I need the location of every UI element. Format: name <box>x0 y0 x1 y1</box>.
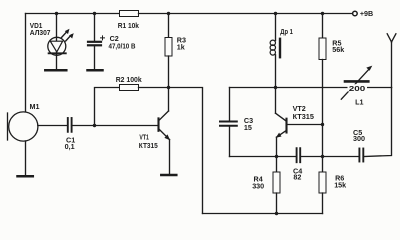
wire C4 to C5 <box>300 156 359 158</box>
wire C1 to VT1 base <box>72 125 158 127</box>
node junction dot choke bottom / VT2 collector <box>274 86 277 89</box>
node junction dot VT1 collector <box>167 86 170 89</box>
ground bar under LED <box>45 69 66 72</box>
svg-text:+9В: +9В <box>360 9 373 18</box>
antenna <box>387 34 396 88</box>
svg-text:1k: 1k <box>177 42 185 51</box>
wire R2 left drop <box>95 88 120 126</box>
capacitor C2 electrolytic <box>88 14 136 71</box>
ground bar under C2 <box>88 69 103 72</box>
LED VD1 <box>30 14 66 71</box>
wire top rail right segment <box>139 13 353 15</box>
capacitor C1 <box>65 118 76 151</box>
svg-text:15k: 15k <box>334 181 346 190</box>
node junction dot R2 to base wire <box>93 124 96 127</box>
node junction dot R4 bottom <box>275 212 278 215</box>
LED arrow 1 <box>62 29 70 38</box>
svg-text:47,0/10 В: 47,0/10 В <box>109 42 136 51</box>
node junction dot R3 top <box>167 12 170 15</box>
resistor R5 <box>319 14 344 173</box>
node junction dot C2 top <box>93 12 96 15</box>
svg-text:200: 200 <box>349 84 366 93</box>
node junction dot C4/C5/R6 <box>321 155 324 158</box>
wire microphone bottom to ground <box>25 141 27 176</box>
svg-text:300: 300 <box>353 134 365 143</box>
svg-text:56k: 56k <box>332 45 344 54</box>
svg-text:0,1: 0,1 <box>65 142 75 151</box>
svg-text:M1: M1 <box>30 102 40 111</box>
transistor VT2 KT315 <box>276 88 323 157</box>
svg-text:АЛ307: АЛ307 <box>30 28 51 37</box>
resistor R2 <box>116 75 142 91</box>
capacitor C3 <box>220 88 253 157</box>
svg-text:L1: L1 <box>355 98 363 107</box>
wire bottom rail <box>203 213 323 215</box>
wire C5 to antenna column <box>363 88 391 157</box>
capacitor variable 200 trimmer <box>341 66 372 107</box>
capacitor C4 <box>293 148 302 182</box>
svg-text:R1 10k: R1 10k <box>118 21 139 30</box>
inductor Dr1 choke <box>270 14 293 88</box>
wire microphone to C1 <box>38 125 68 127</box>
wire left rail down to microphone <box>25 14 27 112</box>
resistor R3 <box>165 14 186 88</box>
node junction dot R5 top <box>321 12 324 15</box>
wire top rail left segment <box>26 13 120 15</box>
node junction dot LED top <box>55 12 58 15</box>
resistor R4 <box>252 157 280 214</box>
transistor VT1 KT315 <box>139 88 170 176</box>
svg-text:КТ315: КТ315 <box>139 141 158 150</box>
microphone M1 <box>8 102 40 141</box>
svg-text:82: 82 <box>293 173 301 182</box>
wire emitter node bottom run <box>230 156 297 158</box>
wire tank-top rail y88 <box>230 87 392 89</box>
svg-text:R2 100k: R2 100k <box>116 75 142 84</box>
LED arrow 2 <box>66 33 74 41</box>
svg-text:15: 15 <box>244 123 252 132</box>
wire R2 to collector junction and down-right corner <box>139 88 203 214</box>
node junction dot VT2 base to R5 line <box>321 123 324 126</box>
node +9V terminal <box>353 9 374 18</box>
resistor R6 <box>319 172 346 214</box>
node junction dot choke top <box>274 12 277 15</box>
resistor R1 <box>118 11 139 31</box>
ground bar under M1 <box>18 175 33 178</box>
ground bar under VT1 emitter <box>161 174 176 177</box>
svg-text:Др 1: Др 1 <box>280 27 293 36</box>
svg-text:КТ315: КТ315 <box>293 112 314 121</box>
capacitor C5 <box>353 128 365 162</box>
svg-text:330: 330 <box>252 181 264 190</box>
node junction dot VT2 emitter / R4 / C4 <box>275 155 278 158</box>
